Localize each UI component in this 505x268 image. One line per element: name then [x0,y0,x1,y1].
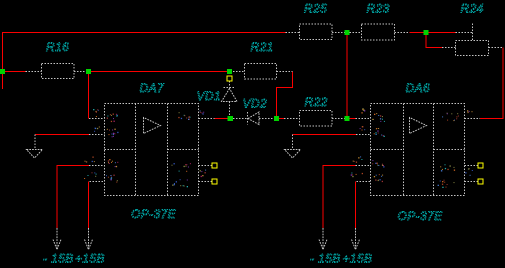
pin number DA7 out [200,111,205,115]
svg-text:R22: R22 [305,95,328,109]
svg-text:OP-37E: OP-37E [131,207,177,221]
pin text DA7 out [178,112,190,120]
svg-text:DA7: DA7 [140,81,165,95]
wire node down to R24 left lead [426,35,442,48]
wire DA6 pin3 to -15V port [323,166,356,229]
wire DA7 pin4 to +15V port [88,182,90,229]
svg-text:VD1: VD1 [197,89,222,103]
svg-text:DA6: DA6 [406,81,431,95]
svg-text:- 15В: - 15В [43,252,74,266]
pin text DA7 os1 [172,163,191,172]
op-amp DA6 [356,104,481,196]
pin end marker DA6 nc1 [478,163,483,168]
pin number DA6 p3 [353,156,363,162]
resistor R22 [284,111,345,127]
resistor R25 [286,24,345,40]
pin number DA6 p2 [360,126,366,130]
junction node VD2 right [274,116,279,121]
junction node R16 right [86,69,91,74]
pin text DA7 v2 [106,175,118,183]
pin number DA6 p1 [361,108,365,114]
pin number DA6 out [467,110,473,113]
pin number DA7 p4 [84,172,97,179]
pin text DA7 v1 [108,159,119,167]
wire ground to DA6 pin2 [293,134,357,136]
svg-text:R25: R25 [304,2,327,16]
junction node DA7 output [228,116,234,121]
wire R25 R23 node down to DA6 pin1 [346,35,348,116]
junction node R21 left [227,69,232,74]
wire DA6 output to R24 right lead [480,48,503,119]
pin text DA6 v1 [372,160,384,167]
pin end marker DA7 nc1 [212,163,217,168]
pin end marker VD1 [227,76,232,81]
pin text DA6 in2 [374,128,385,137]
ground symbol right [285,135,301,159]
pin text DA6 os2 [438,180,455,188]
resistor R24 [442,24,503,56]
diode VD1 [222,81,238,116]
resistor R21 [230,64,293,80]
port arrow +15V left [85,228,93,250]
diode VD2 [233,112,274,125]
pin end marker DA6 nc2 [478,179,483,184]
wire junction to R22 [279,118,284,120]
wire top horizontal net [3,33,286,90]
pin number DA6 p4 [351,173,363,178]
svg-text:R23: R23 [367,2,390,16]
svg-text:+15В: +15В [343,252,373,266]
wire ground to DA7 pin2 [35,134,89,136]
pin text DA7 in1 [107,114,118,123]
svg-text:R21: R21 [251,40,274,54]
resistor R23 [350,24,410,40]
pin text DA6 os1 [440,164,455,171]
pin text DA7 os2 [172,179,188,187]
svg-text:VD2: VD2 [243,97,268,111]
wire to DA7 pin1 [88,72,90,119]
wire DA7 pin3 to -15V port [57,166,89,229]
op-amp DA7 [89,104,215,196]
svg-text:+15В: +15В [75,252,105,266]
wire node to R24 top lead [429,32,456,34]
ground symbol left [27,135,43,159]
wire R16 to R21 [89,71,230,73]
pin text DA7 os ext [200,170,207,178]
pin number DA7 p3 [85,157,95,163]
svg-text:- 15В: - 15В [310,252,341,266]
wire VD2 to R21 feedback [277,72,293,117]
resistor R16 [26,64,90,79]
wire R16 input segment [3,71,26,73]
wire R22 to DA6 pin1 [350,118,356,120]
junction node R25 R23 [345,30,350,35]
pin text DA6 os ext [465,168,473,176]
svg-text:R16: R16 [46,40,69,54]
pin number DA7 p2 [94,127,100,132]
wire R23 to node [410,32,424,34]
wire DA7 output [215,118,228,120]
svg-text:OP-37E: OP-37E [398,209,444,223]
port arrow +15V right [352,228,360,250]
port arrow -15V right [319,228,327,250]
junction node left input [0,69,5,74]
pin text DA6 v2 [374,174,383,182]
junction node DA6 pin1 [345,116,350,121]
pin end marker DA7 nc2 [212,179,217,184]
pin text DA7 in2 [107,129,119,138]
junction node R23 R24 [424,30,429,35]
pin text DA6 out [442,113,459,121]
svg-text:R24: R24 [461,2,484,16]
pin text DA6 in1 [372,113,385,122]
port arrow -15V left [53,228,61,250]
pin number DA7 p1 [93,109,99,117]
wire DA6 pin4 to +15V port [355,182,357,229]
